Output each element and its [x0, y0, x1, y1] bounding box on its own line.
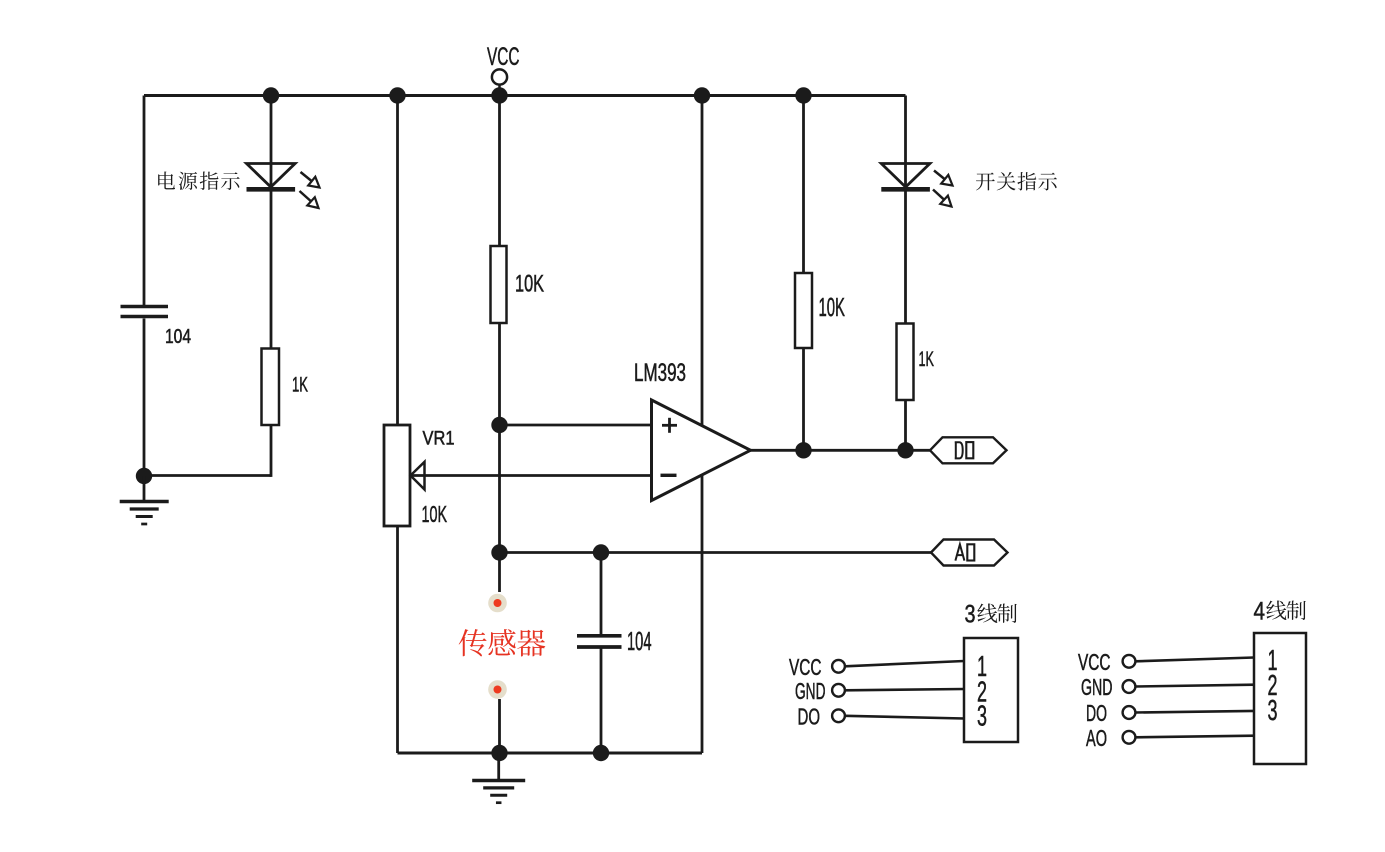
svg-text:GND: GND — [795, 678, 826, 704]
svg-text:104: 104 — [165, 326, 191, 348]
svg-text:10K: 10K — [515, 271, 544, 298]
svg-text:104: 104 — [627, 626, 652, 656]
svg-text:DO: DO — [1086, 700, 1107, 726]
svg-text:10K: 10K — [422, 501, 448, 527]
svg-text:AO: AO — [1086, 725, 1107, 751]
svg-text:DO: DO — [798, 704, 821, 730]
svg-text:3: 3 — [977, 701, 987, 733]
svg-text:10K: 10K — [819, 292, 846, 322]
svg-text:3: 3 — [965, 602, 976, 629]
svg-text:1K: 1K — [919, 348, 935, 371]
svg-text:VCC: VCC — [1078, 649, 1111, 675]
svg-text:VCC: VCC — [487, 44, 520, 71]
svg-text:LM393: LM393 — [634, 360, 686, 387]
svg-text:3: 3 — [1268, 695, 1278, 727]
svg-text:4: 4 — [1254, 599, 1266, 626]
svg-text:1K: 1K — [292, 374, 308, 397]
svg-text:VCC: VCC — [789, 654, 822, 680]
svg-text:VR1: VR1 — [423, 428, 455, 450]
svg-text:GND: GND — [1081, 674, 1113, 700]
